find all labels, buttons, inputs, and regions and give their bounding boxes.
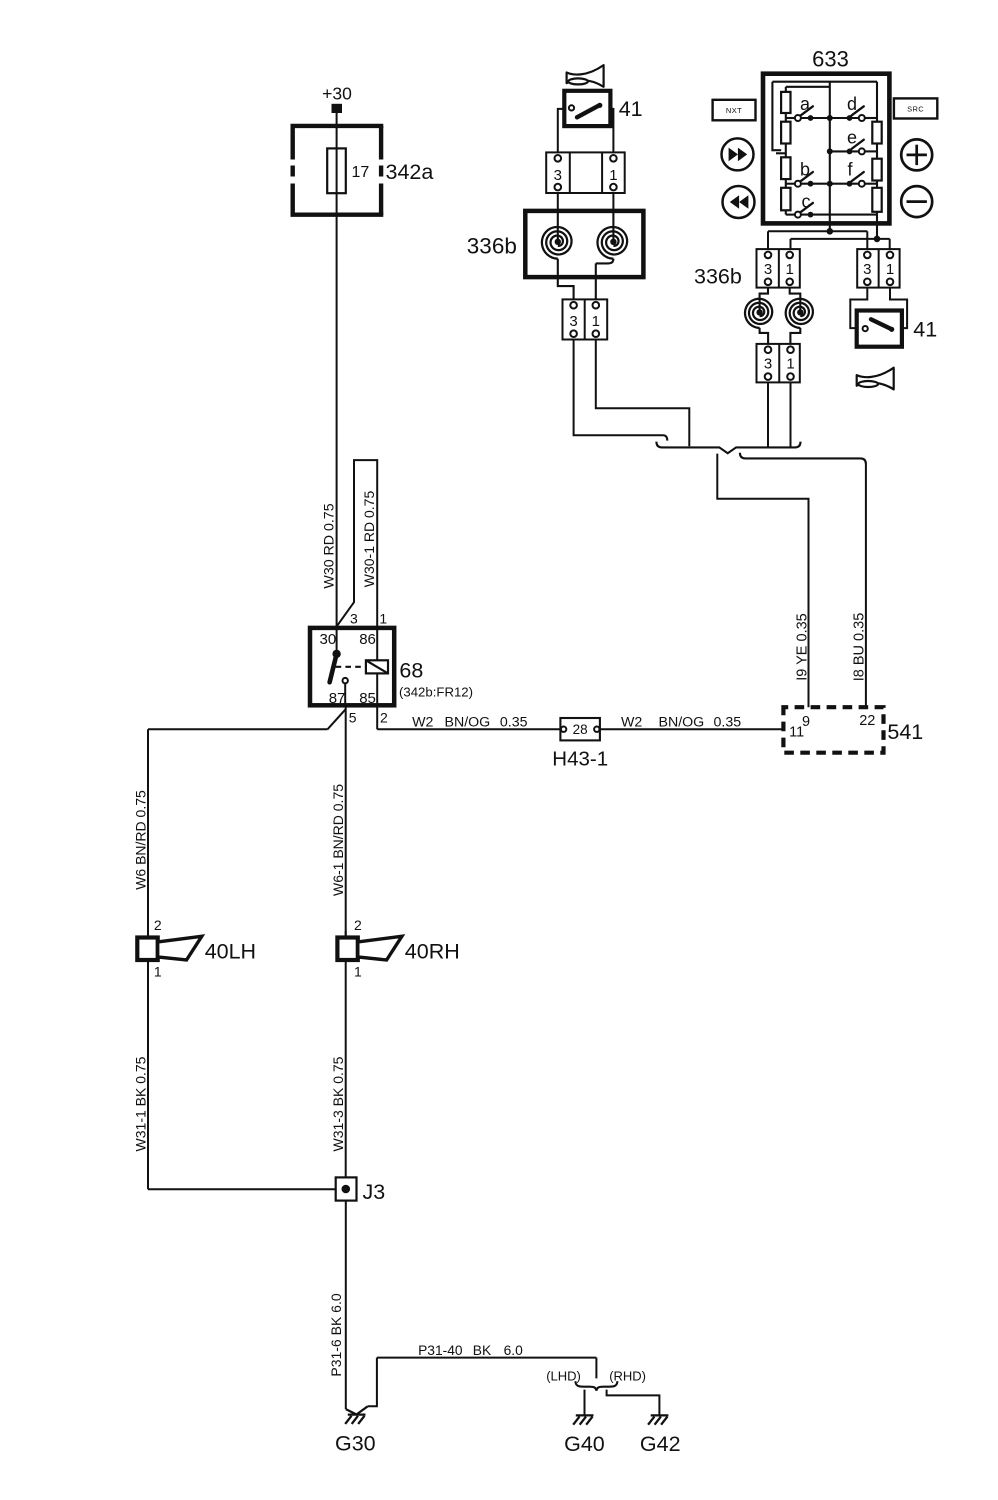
svg-text:41: 41 <box>913 318 937 342</box>
svg-text:SRC: SRC <box>907 104 924 113</box>
svg-text:3: 3 <box>863 261 871 278</box>
svg-text:W30 RD 0.75: W30 RD 0.75 <box>322 503 338 588</box>
svg-text:W30-1 RD 0.75: W30-1 RD 0.75 <box>361 491 377 588</box>
svg-text:1: 1 <box>786 261 794 278</box>
svg-text:3: 3 <box>764 356 772 373</box>
svg-text:2: 2 <box>380 710 388 726</box>
svg-text:17: 17 <box>352 164 370 181</box>
svg-text:G40: G40 <box>564 1432 605 1456</box>
svg-text:1: 1 <box>886 261 894 278</box>
svg-text:2: 2 <box>154 917 162 933</box>
svg-text:633: 633 <box>812 46 849 71</box>
svg-text:0.35: 0.35 <box>500 715 528 731</box>
svg-text:1: 1 <box>786 356 794 373</box>
svg-text:41: 41 <box>619 97 643 121</box>
svg-text:P31-6 BK 6.0: P31-6 BK 6.0 <box>328 1293 344 1376</box>
svg-text:22: 22 <box>859 713 875 729</box>
svg-text:87: 87 <box>329 690 346 707</box>
svg-text:1: 1 <box>609 167 617 184</box>
svg-text:H43-1: H43-1 <box>552 747 608 770</box>
svg-text:W31-1 BK 0.75: W31-1 BK 0.75 <box>132 1056 148 1151</box>
svg-text:a: a <box>800 94 811 114</box>
svg-text:3: 3 <box>764 261 772 278</box>
svg-text:3: 3 <box>350 611 358 627</box>
svg-text:BN/OG: BN/OG <box>445 715 491 731</box>
svg-text:(342b:FR12): (342b:FR12) <box>399 685 473 700</box>
svg-text:85: 85 <box>359 690 376 707</box>
svg-text:3: 3 <box>569 313 577 330</box>
svg-text:86: 86 <box>359 631 376 648</box>
svg-text:30: 30 <box>320 631 337 648</box>
svg-text:G30: G30 <box>335 1431 376 1455</box>
svg-text:11: 11 <box>789 725 804 741</box>
svg-text:J3: J3 <box>363 1180 386 1204</box>
svg-text:3: 3 <box>554 167 562 184</box>
svg-text:541: 541 <box>887 720 923 744</box>
svg-text:P31-40: P31-40 <box>418 1343 463 1358</box>
svg-text:W2: W2 <box>412 715 433 731</box>
svg-text:0.35: 0.35 <box>714 715 742 731</box>
svg-text:5: 5 <box>349 710 357 726</box>
svg-text:d: d <box>847 94 857 114</box>
svg-text:28: 28 <box>573 722 588 737</box>
svg-text:W31-3 BK 0.75: W31-3 BK 0.75 <box>330 1056 346 1151</box>
svg-text:+30: +30 <box>322 84 352 104</box>
svg-text:342a: 342a <box>386 160 434 184</box>
svg-text:40LH: 40LH <box>205 939 256 963</box>
svg-text:1: 1 <box>354 963 362 979</box>
svg-text:I9 YE 0.35: I9 YE 0.35 <box>794 613 810 680</box>
svg-text:G42: G42 <box>640 1432 681 1456</box>
svg-text:1: 1 <box>592 313 600 330</box>
svg-text:e: e <box>847 128 857 148</box>
svg-text:c: c <box>802 191 811 211</box>
svg-text:336b: 336b <box>467 234 517 259</box>
svg-text:6.0: 6.0 <box>504 1343 524 1358</box>
svg-text:NXT: NXT <box>726 106 742 115</box>
svg-text:1: 1 <box>379 611 387 627</box>
svg-text:W2: W2 <box>621 715 642 731</box>
svg-text:BK: BK <box>473 1343 492 1358</box>
svg-text:336b: 336b <box>694 265 742 289</box>
svg-text:BN/OG: BN/OG <box>659 715 705 731</box>
svg-text:b: b <box>800 160 810 180</box>
svg-text:2: 2 <box>354 917 362 933</box>
svg-text:1: 1 <box>154 963 162 979</box>
svg-text:40RH: 40RH <box>405 939 460 963</box>
svg-text:W6-1 BN/RD 0.75: W6-1 BN/RD 0.75 <box>330 784 346 896</box>
svg-text:68: 68 <box>399 659 423 683</box>
svg-text:(RHD): (RHD) <box>609 1369 646 1384</box>
svg-text:W6 BN/RD 0.75: W6 BN/RD 0.75 <box>132 790 148 890</box>
svg-text:(LHD): (LHD) <box>546 1369 581 1384</box>
svg-text:I8 BU 0.35: I8 BU 0.35 <box>852 613 868 682</box>
